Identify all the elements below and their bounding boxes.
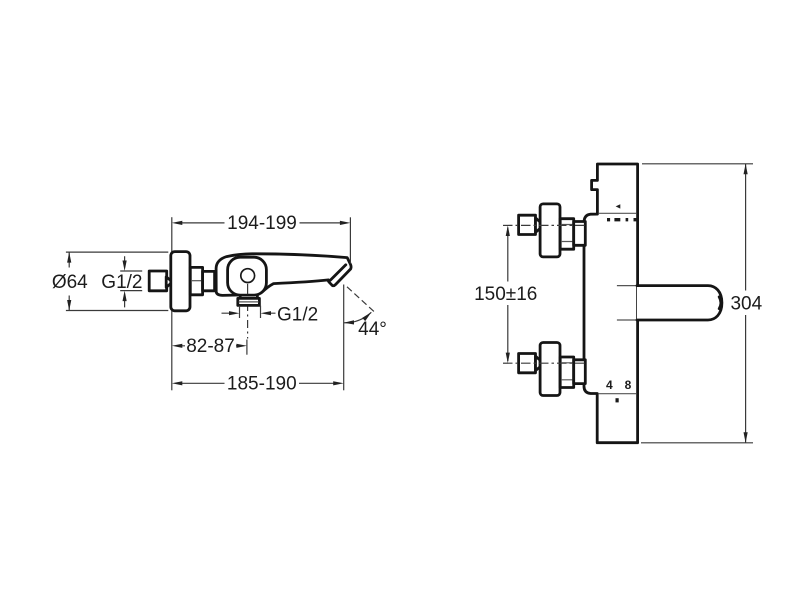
- outlet nut: [238, 298, 260, 305]
- dimension 185-190 right extension line / 44 deg reference: [343, 285, 345, 391]
- top union: nipple: [574, 222, 586, 246]
- dimension 194-199: [349, 217, 351, 263]
- 44 deg dashed ray: [347, 287, 374, 312]
- dimension G1/2 (outlet) extension ticks: [240, 306, 261, 318]
- 44 deg arc arrowheads: [344, 320, 354, 324]
- dimension 185-190: [181, 382, 334, 384]
- adapter piece A: [190, 267, 202, 294]
- svg-text:82-87: 82-87: [186, 336, 235, 357]
- top union: square fitting: [519, 215, 536, 234]
- body top seam line: [599, 212, 636, 214]
- G1/2 wall arrows: [124, 256, 126, 307]
- outlet centerline (dashed): [247, 286, 249, 339]
- bottom union: cone tip: [536, 356, 541, 370]
- svg-text:8: 8: [625, 378, 632, 392]
- svg-text:4: 4: [606, 378, 613, 392]
- outlet neck below body: [240, 295, 257, 299]
- svg-text:304: 304: [730, 294, 762, 315]
- svg-text:44°: 44°: [358, 319, 387, 340]
- dimension O64 line + arrows: [68, 252, 70, 310]
- spout tip edge: [719, 297, 721, 309]
- dimension 82-87: [182, 345, 238, 347]
- svg-text:Ø64: Ø64: [52, 272, 88, 293]
- adapter A seam line: [191, 280, 202, 282]
- top union: cone tip: [536, 218, 541, 232]
- wall plane extension line (lower part, shared by 82-87 and 185-190): [171, 311, 173, 390]
- svg-text:150±16: 150±16: [474, 284, 537, 305]
- bottom inlet centerline (dashed): [503, 362, 585, 364]
- bottom union: collar: [560, 357, 574, 388]
- cone tip of inlet fitting: [166, 277, 171, 287]
- small arrowhead mark inside body top: [616, 204, 621, 208]
- adapter piece B: [203, 271, 215, 290]
- wall plane extension line (upper part): [171, 217, 173, 251]
- dotted hidden line in body at top: [607, 218, 638, 221]
- tiny dot mark: [616, 398, 619, 402]
- dimension 150+-16: [507, 228, 509, 362]
- cartridge circle: [241, 269, 255, 283]
- aerator face seam: [330, 265, 345, 280]
- G1/2 outlet arrows: [222, 312, 276, 314]
- svg-text:194-199: 194-199: [227, 213, 297, 234]
- dimension G1/2 (wall union) ticks: [120, 271, 142, 291]
- svg-text:G1/2: G1/2: [277, 304, 318, 325]
- bottom union: wall flange: [540, 343, 560, 396]
- svg-text:G1/2: G1/2: [101, 272, 142, 293]
- bottom union: collar thread lines: [561, 363, 573, 380]
- top union: collar thread lines: [561, 225, 573, 242]
- dimension O64 extension lines: [66, 252, 168, 310]
- outlet nut seam: [239, 301, 259, 303]
- cartridge housing: [228, 257, 267, 295]
- inlet fitting square (left view): [149, 271, 167, 291]
- dimension 304 line: [745, 164, 747, 443]
- top union: wall flange: [540, 204, 560, 257]
- body silhouette: [584, 164, 638, 443]
- spout hidden lines inside body: [617, 286, 636, 320]
- bottom union: square fitting: [519, 354, 536, 373]
- top inlet centerline (dashed): [503, 224, 585, 226]
- bottom union: nipple: [574, 360, 586, 384]
- wall flange (escutcheon): [171, 252, 190, 311]
- spout (side view) outline: [637, 286, 722, 320]
- dimension 304 extension lines: [641, 164, 753, 443]
- body bottom seam line: [599, 393, 637, 395]
- outlet centerline solid start: [247, 284, 249, 294]
- top union: collar: [560, 219, 574, 250]
- svg-text:185-190: 185-190: [227, 374, 297, 395]
- body and spout outline: [216, 254, 351, 296]
- 44 deg arc: [344, 312, 372, 323]
- 82-87 right extension tick: [246, 340, 248, 355]
